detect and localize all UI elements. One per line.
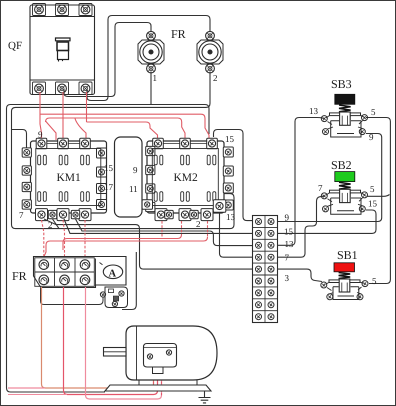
wire 5-chain SB3/SB2/SB1 right side	[366, 118, 390, 284]
svg-text:FR: FR	[171, 27, 186, 41]
wire strip row2 to SB2 pin15	[278, 210, 377, 233]
wire KM1 t2 to strip row2	[64, 219, 253, 233]
red tap to KM1 t2	[46, 121, 57, 140]
thermal relay FR body	[34, 257, 127, 288]
wire bundle to strip row3	[209, 231, 252, 246]
wire fuse2-bottom loop around left+bottom to KM2 right aux	[12, 72, 235, 229]
red wire KM1 b1 to FR t1	[42, 220, 44, 257]
contactor KM2 body	[147, 141, 224, 213]
FR ammeter dial A	[100, 263, 123, 279]
KM2 contact marks	[154, 155, 163, 165]
ground wire	[197, 391, 205, 398]
red stub KM2 b1	[161, 221, 163, 239]
ground symbol	[199, 398, 211, 403]
KM1 inner frame	[36, 149, 101, 206]
wire fuse1-top to QF terminal2	[64, 23, 151, 97]
wire stub 5-chain to SB2 right	[367, 195, 390, 197]
motor cable gland	[153, 367, 164, 374]
svg-text:13: 13	[309, 106, 319, 116]
KM2 top terminals	[146, 138, 234, 220]
svg-text:SB2: SB2	[331, 158, 352, 172]
KM1 top terminals	[22, 138, 106, 220]
svg-text:15: 15	[104, 163, 114, 173]
svg-text:KM1: KM1	[57, 172, 82, 184]
wire strip row3 to SB3 pin13	[278, 118, 325, 246]
svg-text:A: A	[109, 269, 117, 280]
svg-text:QF: QF	[8, 40, 22, 52]
wire fuse1-bottom drop	[150, 72, 152, 105]
svg-text:9: 9	[369, 132, 374, 142]
pushbutton SB1	[325, 248, 363, 300]
wire KM2 bottom-right to strip row4	[220, 213, 253, 258]
KM2 inner frame	[152, 149, 218, 206]
FR aux wire to body ledge	[41, 288, 104, 305]
FR reset/aux box	[105, 287, 128, 308]
svg-text:9: 9	[133, 165, 138, 175]
svg-text:7: 7	[318, 183, 323, 193]
svg-text:7: 7	[19, 210, 24, 220]
svg-text:11: 11	[129, 184, 138, 194]
contactor KM1 body	[31, 141, 107, 213]
red bus B to KM2 t2	[46, 118, 186, 140]
wire QF t2 to KM1 t2 (red)	[62, 92, 64, 140]
KM1 contact marks	[38, 155, 47, 165]
red wire KM1 b2 to FR t2	[63, 220, 65, 257]
red bus A to KM2 t3	[40, 114, 209, 140]
svg-text:9: 9	[38, 130, 43, 140]
svg-text:17: 17	[104, 182, 114, 192]
terminal strip XT	[253, 216, 278, 323]
mechanical interlock box	[115, 137, 143, 217]
pushbutton SB3	[326, 77, 364, 137]
wire KM1 t1 aux to terminal strip row5 via FR side	[44, 219, 253, 269]
svg-text:1: 1	[153, 73, 158, 83]
svg-text:15: 15	[225, 134, 235, 144]
pink wire stubs at left edge	[8, 387, 45, 389]
svg-text:15: 15	[368, 199, 378, 209]
motor body	[126, 326, 217, 380]
svg-text:5: 5	[372, 276, 377, 286]
wire FR vertical pair to motor box	[122, 252, 136, 310]
svg-text:3: 3	[285, 273, 290, 283]
wire bus y104 with left-edge loop to motor base	[7, 105, 210, 393]
svg-text:KM2: KM2	[174, 172, 199, 184]
svg-text:SB3: SB3	[331, 77, 352, 91]
wire stub loop to KM1 left aux1	[12, 130, 27, 148]
wire FR out2 to motor (red)	[64, 287, 158, 395]
svg-text:FR: FR	[12, 269, 27, 283]
svg-text:13: 13	[285, 239, 295, 249]
wire strip row4 to SB2 pin7	[278, 196, 324, 257]
wire hook KM1 aux1 to loop bottom	[53, 219, 60, 229]
pushbutton SB2	[326, 158, 364, 215]
wire fuse2-top to QF terminal3	[87, 16, 210, 101]
breaker QF	[30, 4, 95, 95]
fuse 2	[197, 40, 223, 64]
motor terminal box	[144, 344, 177, 368]
dashed wires through motor base	[154, 374, 162, 396]
svg-text:SB1: SB1	[337, 248, 358, 262]
svg-text:5: 5	[371, 107, 376, 117]
motor shaft	[104, 348, 127, 357]
fuse 1	[138, 40, 164, 64]
wire strip row5 to SB1 pin3	[278, 269, 323, 281]
svg-text:13: 13	[226, 212, 236, 222]
wire KM1 aux2 bundle line	[76, 219, 210, 231]
QF toggle switch	[56, 38, 71, 62]
wire QF t1 to KM1 t1 (red)	[40, 92, 42, 140]
red tap to KM1 t3	[75, 119, 86, 141]
wire KM2 top aux to strip row1	[214, 130, 253, 221]
wire FR out3 to motor (pink)	[86, 287, 162, 399]
red wire KM1 b3 to FR t3	[84, 220, 86, 257]
motor base	[105, 385, 211, 391]
svg-text:5: 5	[370, 184, 375, 194]
KM2 bottom-right main terminal	[213, 200, 226, 213]
red bus C to KM2 t1	[87, 122, 158, 140]
svg-text:2: 2	[213, 73, 218, 83]
svg-text:15: 15	[284, 227, 294, 237]
svg-text:2: 2	[196, 219, 201, 229]
red crossing bus 2	[207, 221, 209, 237]
wire QF t3 to red bus C	[86, 92, 88, 122]
red crossing bus 1	[181, 221, 183, 235]
KM2 bottom-left aux terminal	[142, 200, 153, 210]
wire strip row1 to SB3 pin9	[278, 134, 382, 222]
wire FR out1 to motor (salmon)	[42, 287, 154, 388]
